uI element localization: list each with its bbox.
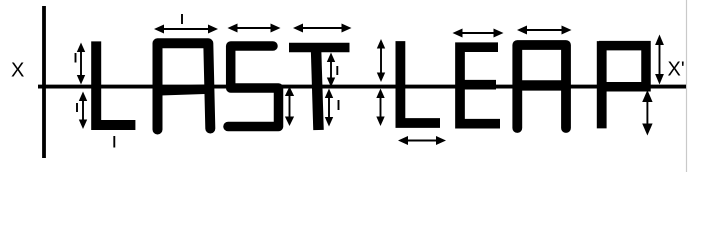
arrow V2 lower-left vertical <box>79 92 87 130</box>
arrow H4 above E of LEAP <box>453 29 504 38</box>
tick l near V5 <box>338 100 340 110</box>
tick l near V4 <box>336 66 338 75</box>
arrow V3 below S-T gap <box>285 87 294 127</box>
crossbar of A of LAST <box>153 89 212 91</box>
letter P of LEAP stem <box>597 41 607 128</box>
letter S of LAST <box>228 46 279 127</box>
arrow H5 above A of LEAP <box>517 26 572 35</box>
arrow V7 before L of LEAP lower <box>376 89 384 127</box>
crossbar of A of LEAP <box>513 80 571 90</box>
letter E of LEAP <box>460 47 500 124</box>
letter T of LAST top bar <box>289 43 350 53</box>
svg-text:X': X' <box>668 58 685 80</box>
arrow H6 below L of LEAP <box>398 136 446 145</box>
page border line <box>686 0 688 172</box>
letter L of LEAP <box>400 41 440 123</box>
arrow V1 upper-left vertical <box>77 43 85 85</box>
arrow V5 right of T stem lower <box>325 89 333 127</box>
letter P of LEAP bowl <box>599 46 646 87</box>
x-axis line <box>38 85 686 89</box>
tick l under L of LAST <box>113 136 115 148</box>
arrow V4 right of T stem upper <box>327 53 335 88</box>
letter A of LAST <box>158 43 211 129</box>
letter A of LEAP <box>517 45 566 128</box>
tick l near V1 <box>75 53 77 63</box>
arrow H1 above A of LAST <box>154 25 218 34</box>
tick l above H1 <box>181 14 183 24</box>
arrow V6 before L of LEAP upper <box>377 39 385 82</box>
letter L of LAST <box>96 41 135 125</box>
tick l near V2 <box>76 103 78 112</box>
arrow V8 right of P upper (X-prime arrow) <box>655 35 664 85</box>
arrow H3 above T <box>293 24 352 33</box>
arrow V9 below P right <box>642 90 652 136</box>
y-axis line <box>42 6 46 158</box>
middle bar of E of LEAP <box>460 80 496 90</box>
arrow H2 above S <box>228 24 281 33</box>
svg-text:X: X <box>11 60 24 82</box>
letter T of LAST stem <box>316 48 319 131</box>
